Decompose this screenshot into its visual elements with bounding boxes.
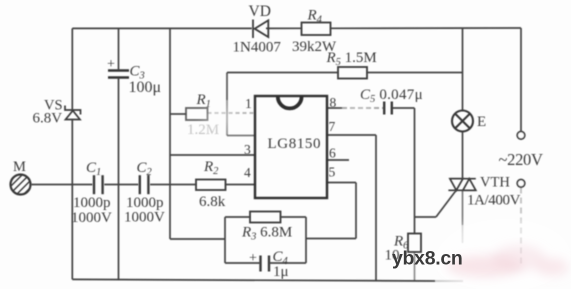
svg-text:ybx8.cn: ybx8.cn [392, 248, 463, 270]
svg-text:+: + [249, 251, 257, 266]
svg-text:4: 4 [244, 165, 251, 180]
wire top rail right [331, 27, 522, 29]
wire loop top-right [281, 216, 307, 218]
wire right rail lower faint [520, 188, 522, 267]
wire to R6 top [414, 217, 416, 234]
wire loop top-left [225, 216, 250, 218]
svg-text:1N4007: 1N4007 [233, 40, 282, 56]
wire loop bottom-left [225, 262, 260, 264]
svg-text:+: + [107, 57, 115, 72]
wire left rail upper [71, 28, 73, 110]
wire lamp to triac [462, 132, 464, 179]
resistor R5 [338, 67, 367, 79]
wire pin8 to C5 (faded) [342, 107, 384, 109]
wire C1 to C2 [104, 184, 138, 186]
wire right rail upper [520, 28, 522, 132]
wire pin8 [327, 107, 342, 109]
wire triac down faint [462, 225, 464, 243]
wire C2 to R2 [150, 184, 196, 186]
capacitor C2 [140, 175, 149, 194]
svg-text:R4: R4 [307, 8, 323, 26]
capacitor C4 [261, 256, 270, 272]
svg-text:1: 1 [245, 96, 252, 111]
svg-text:100μ: 100μ [129, 79, 162, 96]
resistor R6 [408, 234, 421, 253]
svg-text:1μ: 1μ [273, 264, 289, 280]
lamp E [452, 111, 473, 132]
wire loop left [224, 217, 226, 263]
op-amp U1 IC LG8150 [255, 96, 327, 198]
svg-text:M: M [13, 159, 26, 175]
svg-text:VD: VD [249, 3, 271, 20]
svg-text:R5 1.5M: R5 1.5M [326, 50, 377, 68]
wire R1 to pin1 (faded) [208, 112, 256, 114]
terminal upper [517, 132, 525, 140]
wire rail to R1 [170, 113, 186, 115]
svg-text:1000V: 1000V [124, 210, 165, 226]
svg-text:6.8V: 6.8V [33, 111, 63, 127]
wire bottom rail [72, 279, 435, 281]
svg-text:8: 8 [330, 95, 337, 110]
wire loop right [305, 217, 307, 263]
wire pin5 down [355, 183, 357, 239]
wire pin7 down [375, 135, 377, 281]
terminal lower [517, 180, 525, 188]
svg-text:6: 6 [329, 146, 336, 161]
wire to pin2 [227, 135, 255, 137]
wire bottom rail faint [435, 280, 463, 282]
svg-text:~220V: ~220V [499, 150, 543, 169]
svg-text:5: 5 [329, 165, 336, 180]
wire M to C1 [31, 184, 93, 186]
capacitor C3 [108, 71, 129, 78]
wire gate horizontal [415, 216, 437, 218]
wire pin5 to loop [306, 238, 356, 240]
wire top rail left [72, 27, 252, 29]
svg-text:1000V: 1000V [71, 210, 112, 226]
wire R2 to pin4 [226, 184, 256, 186]
triac VTH [448, 179, 475, 191]
svg-text:LG8150: LG8150 [268, 136, 322, 152]
wire top rail mid [266, 27, 302, 29]
wire left rail lower [71, 120, 73, 280]
wire R6 bottom [414, 252, 416, 281]
wire pin5 [327, 182, 356, 184]
wire C5 down [414, 108, 416, 217]
svg-text:1000p: 1000p [73, 195, 111, 211]
wire R5 down to pin2 lower [226, 100, 228, 136]
resistor R2 [196, 180, 226, 191]
svg-text:R2: R2 [203, 159, 219, 177]
svg-text:C5 0.047μ: C5 0.047μ [360, 87, 423, 105]
resistor R1 (faded) [186, 108, 208, 120]
wire C3 branch lower [118, 78, 120, 280]
wire C5 right [392, 107, 415, 109]
capacitor C1 [94, 175, 103, 194]
svg-text:3: 3 [244, 142, 251, 157]
svg-text:1A/400V: 1A/400V [467, 193, 521, 209]
microphone M [0, 166, 52, 200]
wire pin6 stub [327, 159, 349, 161]
svg-text:E: E [477, 114, 486, 130]
wire pin3 [170, 154, 255, 156]
watermark pink blobs [447, 245, 568, 277]
wire R5 down to pin2 [226, 73, 228, 101]
svg-text:R1: R1 [196, 92, 211, 110]
capacitor C5 [384, 102, 392, 115]
wire pin7 [327, 134, 376, 136]
svg-text:R3 6.8M: R3 6.8M [241, 225, 292, 243]
svg-text:VTH: VTH [480, 175, 510, 191]
wire R5 right [367, 72, 463, 74]
wire R5 left [227, 72, 338, 74]
wire lamp branch upper [462, 28, 464, 110]
scan wash-out blobs [202, 101, 571, 289]
resistor R3 [250, 212, 281, 223]
wire triac down [462, 190, 464, 225]
wire loop bottom-right [270, 262, 307, 264]
zener diode VS [65, 106, 81, 120]
resistor R4 [302, 23, 331, 36]
wire rail to RC loop [170, 238, 225, 240]
wire gate diagonal [436, 191, 456, 218]
svg-text:C2: C2 [137, 160, 153, 178]
diode VD 1N4007 [253, 20, 268, 39]
svg-text:7: 7 [329, 119, 336, 134]
wire C3 branch upper [118, 28, 120, 70]
wire vertical rail x170 [169, 28, 171, 239]
svg-text:C1: C1 [86, 160, 101, 178]
svg-text:6.8k: 6.8k [199, 194, 226, 210]
